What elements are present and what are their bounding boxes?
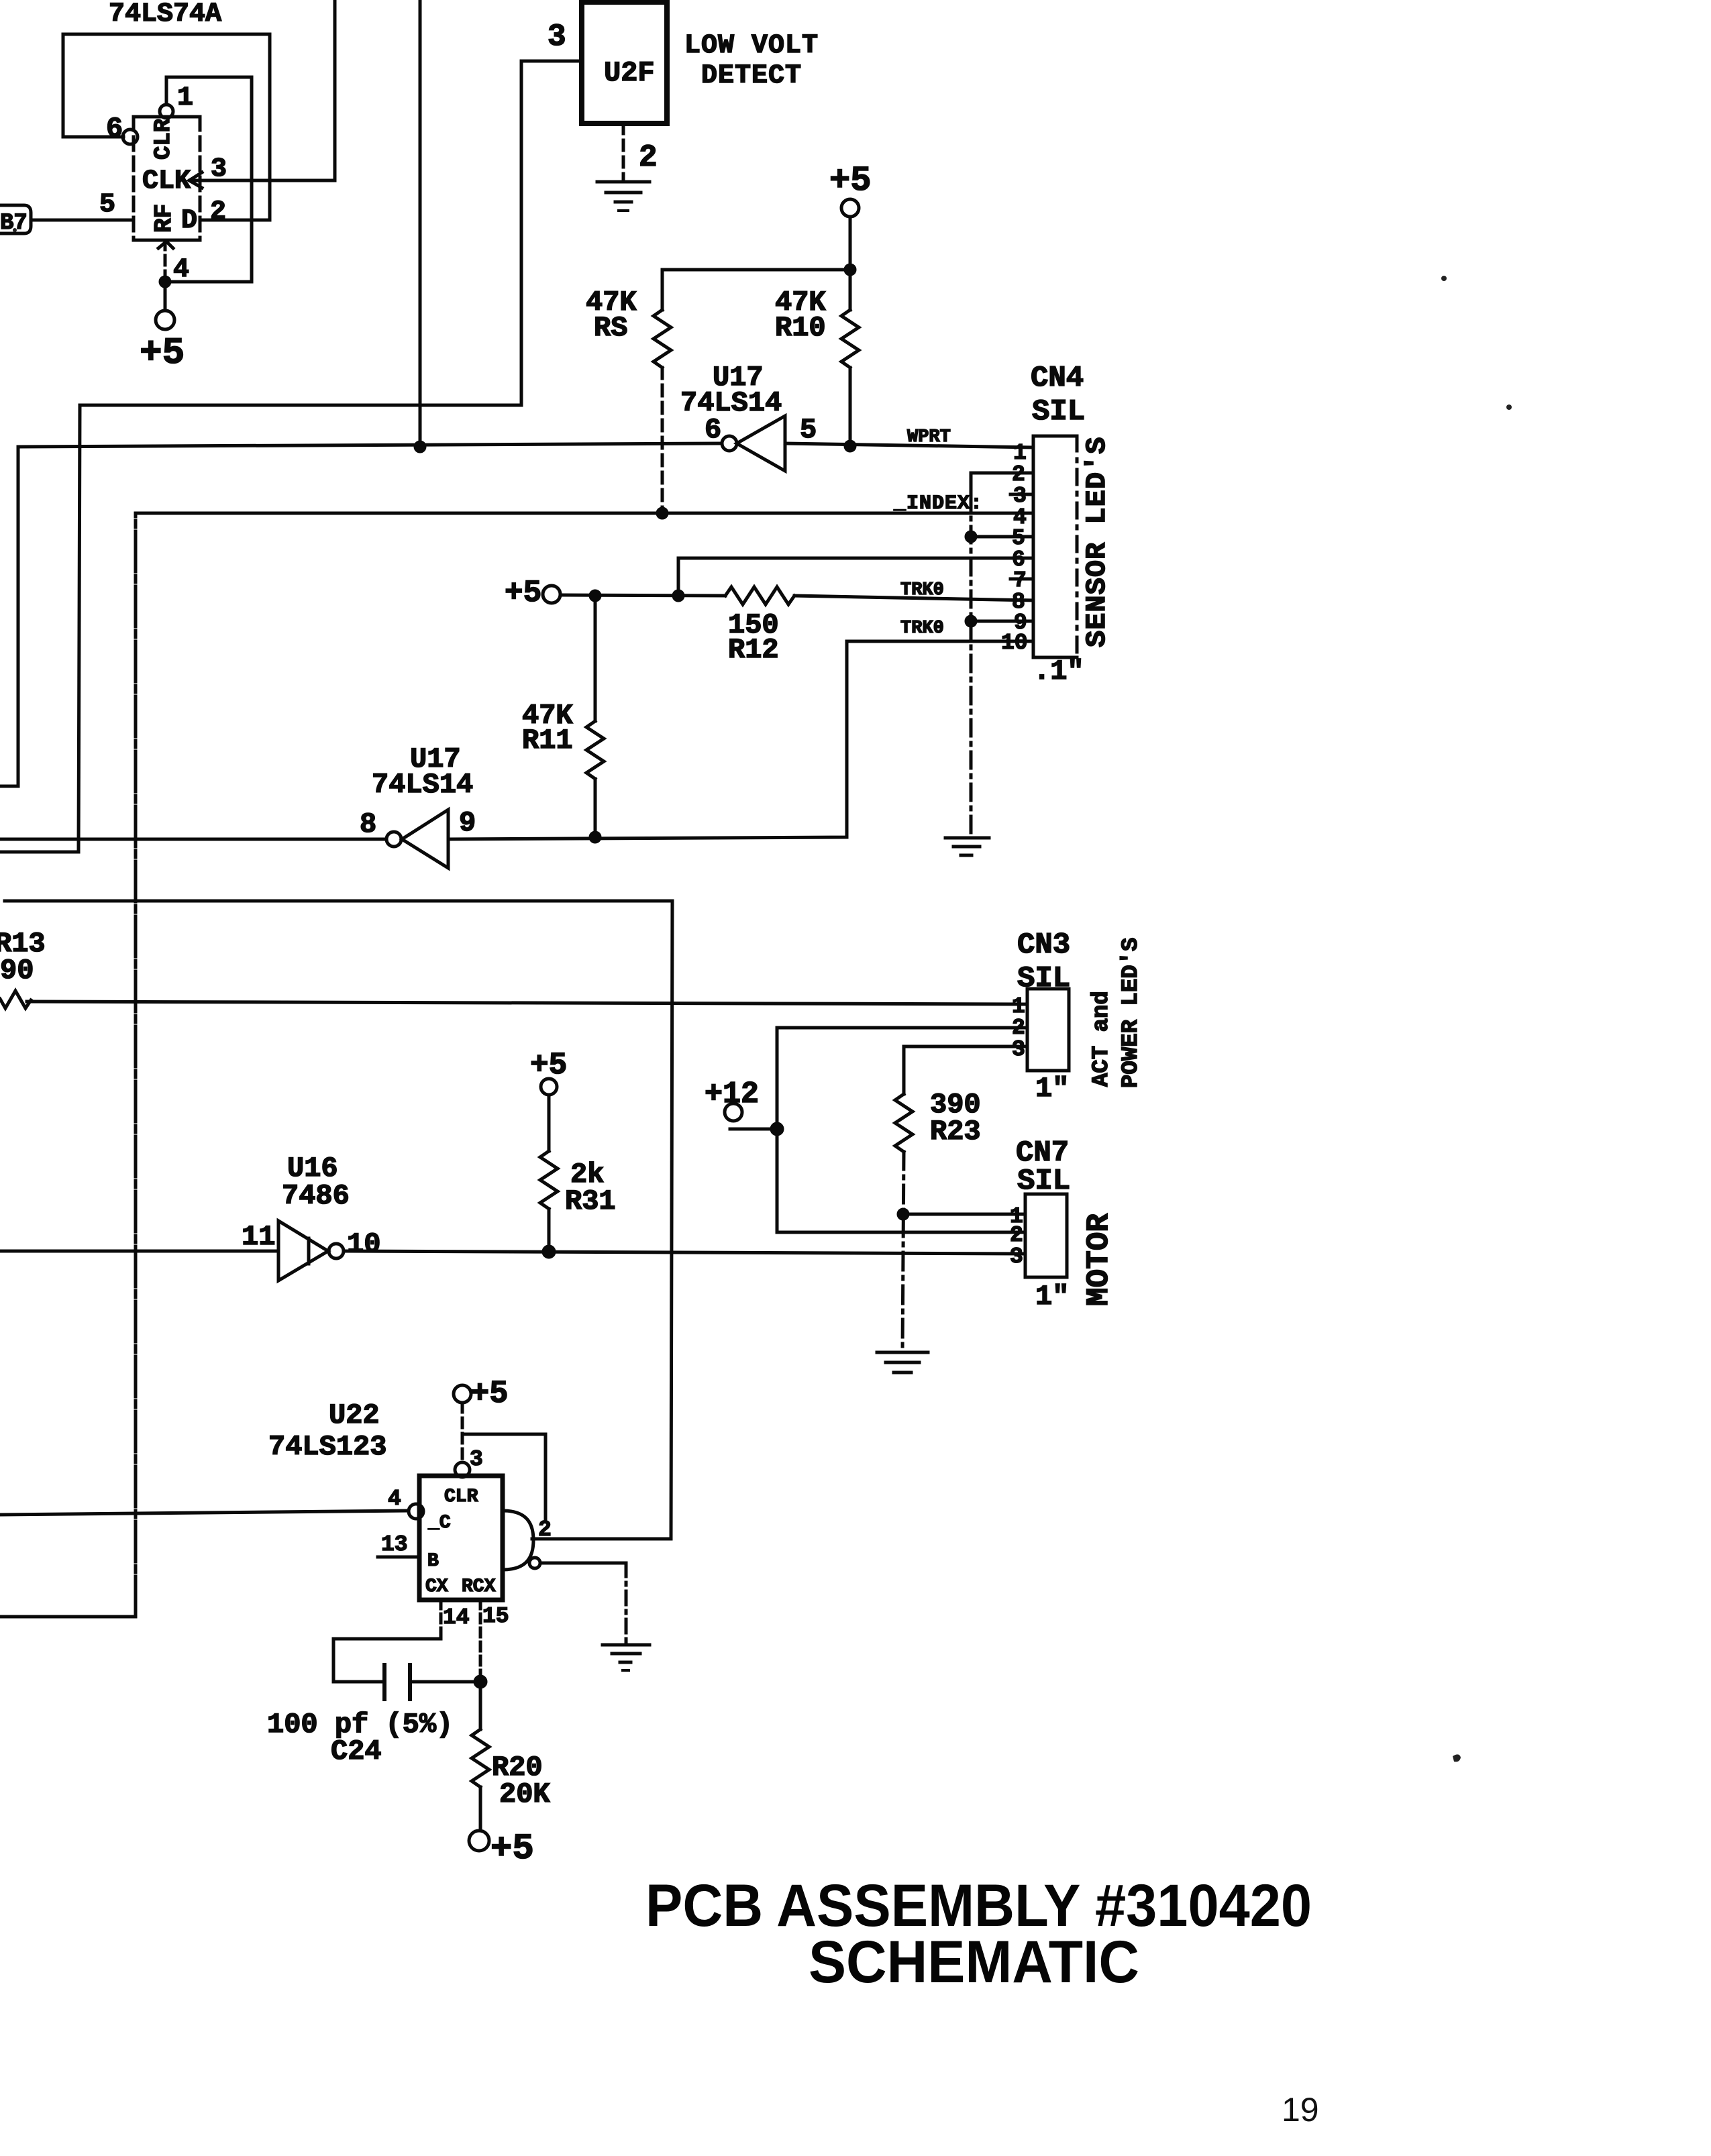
svg-text:+5: +5 xyxy=(505,576,541,610)
flip-flop 74LS74A body xyxy=(134,117,200,240)
wire CN4 ground rail xyxy=(966,473,976,838)
wire CN3 pin3 to R23 xyxy=(904,1046,1027,1094)
svg-text:POWER LED'S: POWER LED'S xyxy=(1119,938,1144,1088)
svg-text:SENSOR LED'S: SENSOR LED'S xyxy=(1081,437,1113,647)
wire INDEX net (long vertical + horizontal to CN4 pin4) xyxy=(0,513,1033,1617)
connector CN3 body xyxy=(1027,989,1069,1071)
svg-text:SIL: SIL xyxy=(1032,395,1085,429)
page number 19 xyxy=(1282,2091,1319,2128)
svg-text:6: 6 xyxy=(106,113,123,145)
svg-text:15: 15 xyxy=(482,1604,509,1629)
flip-flop U? 74LS74A label xyxy=(109,0,221,30)
wire U16 output to CN7 pin3 xyxy=(344,1251,1025,1254)
title PCB ASSEMBLY #310420 SCHEMATIC xyxy=(645,1872,1312,1995)
op-amp U17 inverter A labels xyxy=(680,362,782,419)
node WPRT label xyxy=(907,427,951,447)
svg-text:1": 1" xyxy=(1035,1073,1069,1105)
U22 pin4 input xyxy=(0,1487,423,1519)
svg-text:ACT and: ACT and xyxy=(1089,991,1114,1087)
wire feedback +5 line to gate pin2 xyxy=(462,1434,546,1521)
svg-text:74LS14: 74LS14 xyxy=(680,387,782,419)
svg-text:CLK: CLK xyxy=(142,166,191,197)
wire U2F pin3 run to lower left xyxy=(0,61,521,852)
resistor R31 2k xyxy=(540,1095,616,1257)
svg-text:+5: +5 xyxy=(829,161,871,201)
svg-text:74LS123: 74LS123 xyxy=(268,1431,386,1463)
svg-text:7486: 7486 xyxy=(282,1180,350,1212)
svg-text:+12: +12 xyxy=(705,1077,759,1112)
label MOTOR (rotated) xyxy=(1082,1214,1117,1306)
op-amp U16 labels xyxy=(282,1152,350,1212)
svg-text:D: D xyxy=(181,206,197,236)
inverter U16 (points right, 7486) xyxy=(242,1221,380,1281)
connector CN7 labels xyxy=(1016,1136,1070,1198)
svg-text:R12: R12 xyxy=(728,634,779,666)
wire pin4 to loop and +5 xyxy=(160,277,252,311)
node _INDEX: label xyxy=(893,492,983,515)
svg-text:+5: +5 xyxy=(470,1377,508,1412)
svg-text:RCX: RCX xyxy=(462,1576,496,1597)
svg-text:6: 6 xyxy=(705,414,721,446)
specks xyxy=(13,228,1512,1762)
op-amp U2F box xyxy=(582,2,667,123)
wire pin1 to inner loop xyxy=(166,77,252,282)
svg-text:13: 13 xyxy=(381,1532,408,1557)
label 1" (CN3) xyxy=(1035,1073,1069,1105)
svg-text:20K: 20K xyxy=(499,1778,550,1811)
power +5 (R20) xyxy=(469,1829,534,1870)
op-amp U17 inverter B labels xyxy=(372,743,473,801)
wire +5 to R12 junction xyxy=(560,591,725,600)
U22 pin13 input xyxy=(378,1532,419,1557)
power +5 (R12 rail) xyxy=(505,576,560,610)
resistor R23 390 xyxy=(895,1089,981,1352)
power +5 (U22 pin3) xyxy=(454,1377,508,1412)
U22 pin15 stub xyxy=(480,1600,509,1682)
svg-text:R31: R31 xyxy=(565,1185,616,1218)
svg-text:1: 1 xyxy=(177,83,193,113)
svg-text:U22: U22 xyxy=(329,1399,380,1432)
svg-text:B: B xyxy=(427,1551,439,1572)
connector CN7 pin numbers xyxy=(1010,1204,1023,1269)
svg-text:+5: +5 xyxy=(140,331,185,374)
resistor R10 47K xyxy=(775,270,859,451)
wire junction up to CN4 pin6 xyxy=(678,558,1033,596)
svg-text:LOW VOLT: LOW VOLT xyxy=(684,31,819,61)
svg-text:.1": .1" xyxy=(1033,655,1084,688)
resistor R13 (partial at left edge) xyxy=(0,928,46,1008)
wire U17A input to CN4 pin1 xyxy=(785,443,1033,447)
svg-text:B7: B7 xyxy=(0,211,28,236)
svg-text:C24: C24 xyxy=(331,1735,382,1768)
svg-text:3: 3 xyxy=(470,1447,483,1472)
capacitor C24 100pf xyxy=(267,1639,486,1768)
wire +5 to pin3 bubble xyxy=(455,1403,483,1477)
svg-text:19: 19 xyxy=(1282,2091,1319,2128)
pin 1 bubble (PRE) xyxy=(160,83,193,118)
svg-text:U2F: U2F xyxy=(604,57,655,89)
svg-text:4: 4 xyxy=(388,1487,401,1511)
svg-text:74LS74A: 74LS74A xyxy=(109,0,221,30)
svg-text:CN4: CN4 xyxy=(1031,362,1084,395)
U22 pin14 stub xyxy=(441,1600,470,1639)
wire TRK0 to CN4 pin10 via U17B input xyxy=(448,641,1033,839)
svg-text:WPRT: WPRT xyxy=(907,427,951,447)
svg-text:2: 2 xyxy=(210,197,226,227)
svg-text:8: 8 xyxy=(360,808,376,841)
ground (R23/CN7) xyxy=(877,1352,928,1372)
svg-text:RF: RF xyxy=(150,204,178,233)
resistor RS 47K xyxy=(586,270,671,518)
svg-text:9: 9 xyxy=(459,807,476,839)
connector CN4 body xyxy=(1033,436,1077,657)
svg-text:RS: RS xyxy=(594,312,627,344)
svg-text:R10: R10 xyxy=(775,312,826,344)
wire outer loop pin6 to D xyxy=(63,34,270,227)
pin 3 CLK arrow and wire xyxy=(189,0,335,188)
svg-text:14: 14 xyxy=(443,1605,470,1630)
svg-text:+5: +5 xyxy=(490,1829,534,1870)
ground (U22) xyxy=(603,1645,650,1670)
svg-text:DETECT: DETECT xyxy=(701,61,802,91)
U22 74LS123 body xyxy=(419,1476,503,1600)
svg-text:3: 3 xyxy=(1010,1244,1023,1269)
wire +5 rail xyxy=(662,217,855,274)
svg-text:5: 5 xyxy=(800,414,817,446)
svg-text:MOTOR: MOTOR xyxy=(1082,1214,1117,1306)
svg-text:10: 10 xyxy=(347,1228,380,1260)
label .1" xyxy=(1033,655,1084,688)
svg-text:5: 5 xyxy=(99,190,115,220)
svg-text:CN3: CN3 xyxy=(1017,928,1070,962)
label LOW VOLT DETECT xyxy=(684,31,819,91)
power +12 xyxy=(705,1077,782,1134)
svg-text:_C: _C xyxy=(427,1513,451,1533)
svg-text:R23: R23 xyxy=(930,1116,981,1148)
label 1" (CN7) xyxy=(1035,1281,1069,1313)
wire U2F pin 3 xyxy=(521,19,582,61)
node TRK0 labels xyxy=(900,580,944,639)
svg-text:1": 1" xyxy=(1035,1281,1069,1313)
resistor R11 47K (pull-up) xyxy=(522,596,604,842)
label ACT and POWER LED'S (rotated) xyxy=(1089,938,1144,1088)
ground (CN4 rail) xyxy=(945,838,989,855)
wire net A (to U22 Q output, runs to CN7 area) xyxy=(5,901,672,1539)
connector CN3 pin numbers xyxy=(1012,994,1025,1062)
wire B7 to pin 5 xyxy=(31,190,134,220)
wire CN7 pin1 to R23 rail xyxy=(903,1213,1025,1216)
svg-text:TRK0: TRK0 xyxy=(900,618,944,639)
power +5 (R31) xyxy=(530,1048,567,1095)
svg-text:CLR: CLR xyxy=(444,1487,478,1507)
pin 6 bubble (CLR input) xyxy=(106,113,138,145)
svg-text:2: 2 xyxy=(639,140,658,175)
svg-text:3: 3 xyxy=(1012,1037,1025,1062)
svg-text:3: 3 xyxy=(548,19,566,54)
pin 4 stub xyxy=(158,240,189,285)
svg-text:SCHEMATIC: SCHEMATIC xyxy=(809,1928,1139,1995)
op-amp U22 labels xyxy=(268,1399,386,1463)
wire R13 net to CN3 pin1 xyxy=(27,1002,1027,1004)
power +5 (R9/R10 rail) xyxy=(829,161,871,217)
inverter U17A (points left) xyxy=(705,414,817,471)
connector CN7 body xyxy=(1025,1194,1067,1277)
svg-text:TRK0: TRK0 xyxy=(900,580,944,600)
wire WPRT output run (to far left and down) xyxy=(0,443,722,786)
wire vertical bus x626 xyxy=(415,0,425,451)
wire U16 input from left edge xyxy=(0,1250,278,1253)
connector CN4 pin stubs and numbers xyxy=(971,441,1033,655)
svg-text:74LS14: 74LS14 xyxy=(372,769,473,801)
power +5 (flip-flop) xyxy=(140,311,185,374)
svg-text:R11: R11 xyxy=(522,724,573,757)
svg-text:90: 90 xyxy=(0,955,34,987)
wire CN3 pin2 to CN7 pin2 xyxy=(777,1028,1027,1232)
svg-text:CX: CX xyxy=(425,1576,448,1597)
svg-text:CLR: CLR xyxy=(151,118,176,160)
svg-text:11: 11 xyxy=(242,1221,275,1253)
inverter U17B (points left) xyxy=(360,807,476,868)
U22 output gate shape xyxy=(503,1511,552,1570)
resistor R20 20K xyxy=(472,1682,550,1831)
connector CN3 labels xyxy=(1017,928,1070,995)
wire U17B output to left edge xyxy=(0,838,386,841)
U2F pin 2 stub xyxy=(623,123,658,178)
resistor R12 150 (horizontal) xyxy=(725,587,1033,666)
node B7 input box xyxy=(0,205,31,236)
connector CN4 labels xyxy=(1031,362,1085,429)
svg-text:2: 2 xyxy=(538,1517,552,1542)
ground (U2F) xyxy=(597,182,650,211)
svg-text:3: 3 xyxy=(211,154,227,184)
wire U22 Q-bar to ground xyxy=(540,1563,626,1642)
label SENSOR LED'S (rotated) xyxy=(1081,437,1113,647)
